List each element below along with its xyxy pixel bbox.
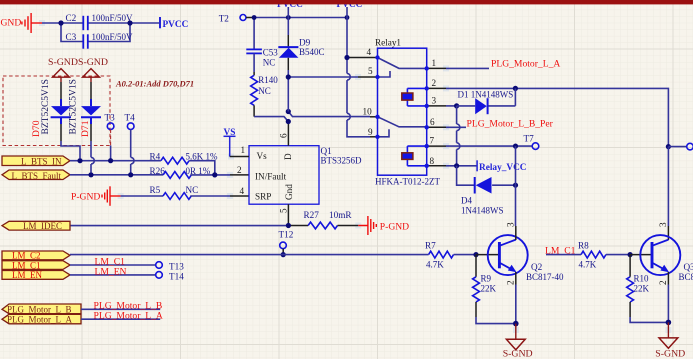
- svg-text:SRP: SRP: [255, 192, 271, 202]
- svg-text:PLG_Motor_L_B_Per: PLG_Motor_L_B_Per: [467, 118, 554, 129]
- svg-text:100nF/50V: 100nF/50V: [92, 13, 134, 23]
- svg-text:Gnd: Gnd: [284, 184, 294, 200]
- svg-text:S-GND: S-GND: [655, 349, 685, 359]
- svg-text:LM_IDEC: LM_IDEC: [23, 221, 62, 231]
- svg-text:T2: T2: [219, 14, 230, 24]
- svg-text:BZT52C5V1S: BZT52C5V1S: [69, 79, 79, 134]
- svg-text:LM_EN: LM_EN: [95, 266, 127, 277]
- svg-text:2: 2: [658, 280, 668, 285]
- svg-text:LM_EN: LM_EN: [12, 270, 42, 280]
- svg-text:1N4148WS: 1N4148WS: [461, 206, 504, 216]
- svg-text:C53: C53: [263, 48, 279, 58]
- svg-text:S-GND: S-GND: [78, 57, 108, 68]
- svg-text:D1 1N4148WS: D1 1N4148WS: [458, 90, 514, 100]
- svg-text:Q2: Q2: [531, 262, 543, 272]
- svg-text:5: 5: [368, 66, 373, 76]
- svg-text:P-GND: P-GND: [71, 191, 100, 202]
- svg-text:BTS3256D: BTS3256D: [321, 156, 363, 166]
- svg-text:T7: T7: [524, 134, 535, 144]
- svg-text:5: 5: [279, 208, 289, 213]
- svg-text:Relay_VCC: Relay_VCC: [479, 163, 527, 173]
- svg-text:LM_C2: LM_C2: [12, 251, 41, 261]
- svg-text:BC817-40: BC817-40: [526, 272, 564, 282]
- svg-text:GND: GND: [1, 18, 22, 29]
- svg-text:L_BTS_IN: L_BTS_IN: [21, 157, 62, 167]
- svg-text:A0.2-01:Add D70,D71: A0.2-01:Add D70,D71: [115, 79, 194, 89]
- svg-text:PLG_Motor_L_A: PLG_Motor_L_A: [94, 311, 163, 322]
- svg-text:BZT52C5V1S: BZT52C5V1S: [41, 79, 51, 134]
- svg-text:D9: D9: [299, 37, 311, 47]
- svg-text:3: 3: [432, 96, 437, 106]
- svg-text:4: 4: [367, 47, 372, 57]
- svg-text:2: 2: [432, 78, 437, 88]
- svg-text:NC: NC: [263, 57, 276, 67]
- svg-text:T4: T4: [125, 113, 136, 123]
- svg-text:P-GND: P-GND: [380, 221, 409, 232]
- svg-text:3: 3: [506, 222, 516, 227]
- svg-text:1: 1: [432, 58, 437, 68]
- svg-text:LM_C1: LM_C1: [12, 260, 41, 270]
- svg-text:R8: R8: [578, 241, 589, 251]
- svg-text:9: 9: [368, 127, 373, 137]
- svg-text:R4: R4: [150, 152, 161, 162]
- svg-text:22K: 22K: [634, 283, 650, 293]
- svg-text:R5: R5: [150, 185, 161, 195]
- svg-text:7: 7: [430, 136, 435, 146]
- svg-text:L_BTS_Fault: L_BTS_Fault: [12, 171, 62, 181]
- svg-text:3: 3: [658, 222, 668, 227]
- svg-text:Relay1: Relay1: [375, 38, 401, 48]
- svg-text:4.7K: 4.7K: [579, 259, 597, 269]
- svg-text:T14: T14: [169, 271, 184, 281]
- svg-text:NC: NC: [186, 185, 199, 195]
- svg-text:22K: 22K: [481, 283, 497, 293]
- svg-text:6: 6: [430, 117, 435, 127]
- svg-text:R9: R9: [481, 274, 492, 284]
- svg-text:BC817-40: BC817-40: [679, 272, 693, 282]
- svg-text:2: 2: [237, 165, 242, 175]
- svg-text:D: D: [283, 153, 293, 160]
- svg-text:4: 4: [240, 186, 245, 196]
- svg-text:B540C: B540C: [299, 47, 325, 57]
- svg-text:4.7K: 4.7K: [426, 259, 444, 269]
- svg-text:C2: C2: [66, 13, 77, 23]
- svg-text:D4: D4: [461, 196, 472, 206]
- svg-text:C3: C3: [66, 32, 77, 42]
- svg-text:6: 6: [279, 133, 289, 138]
- svg-text:PLG_Motor_L_A: PLG_Motor_L_A: [491, 58, 560, 69]
- svg-text:R10: R10: [634, 274, 650, 284]
- svg-text:10: 10: [363, 107, 373, 117]
- svg-text:1: 1: [241, 145, 246, 155]
- svg-text:R7: R7: [425, 241, 436, 251]
- svg-text:Q3: Q3: [684, 262, 693, 272]
- svg-text:100nF/50V: 100nF/50V: [92, 32, 134, 42]
- svg-text:T12: T12: [279, 230, 294, 240]
- svg-text:S-GND: S-GND: [503, 349, 533, 359]
- svg-text:Q1: Q1: [321, 146, 333, 156]
- svg-text:10mR: 10mR: [329, 210, 352, 220]
- svg-text:HFKA-T012-2ZT: HFKA-T012-2ZT: [375, 177, 440, 187]
- svg-text:T3: T3: [105, 113, 116, 123]
- svg-text:PLG_Motor_L_B: PLG_Motor_L_B: [7, 305, 72, 315]
- svg-text:IN/Fault: IN/Fault: [255, 172, 287, 182]
- svg-text:D71: D71: [80, 120, 91, 137]
- svg-text:NC: NC: [258, 86, 271, 96]
- svg-text:Vs: Vs: [257, 151, 268, 161]
- svg-text:R140: R140: [258, 75, 278, 85]
- svg-text:S-GND: S-GND: [48, 57, 78, 68]
- svg-text:R27: R27: [304, 210, 320, 220]
- svg-text:8: 8: [430, 156, 435, 166]
- svg-text:PLG_Motor_L_A: PLG_Motor_L_A: [7, 315, 73, 325]
- svg-text:T13: T13: [169, 262, 184, 272]
- svg-text:PVCC: PVCC: [163, 20, 189, 30]
- svg-text:2: 2: [506, 280, 516, 285]
